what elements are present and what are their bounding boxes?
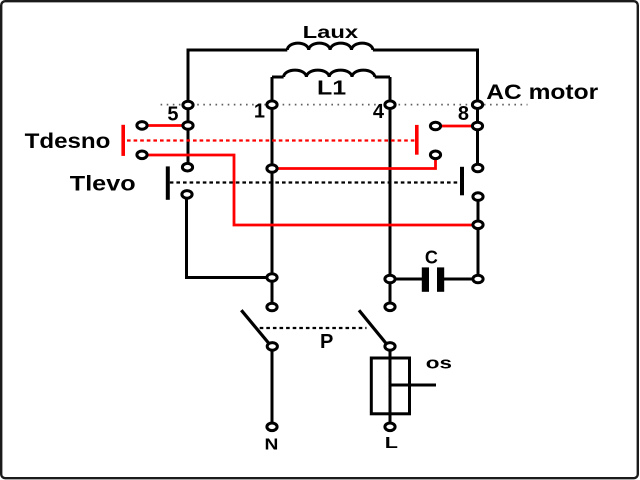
svg-text:L1: L1 bbox=[317, 77, 346, 99]
wire terminal-1 column bbox=[271, 77, 274, 307]
svg-text:Laux: Laux bbox=[303, 23, 359, 42]
svg-text:Tdesno: Tdesno bbox=[25, 129, 111, 152]
wire top-right vertical (top bus to node 8) bbox=[476, 50, 479, 105]
svg-text:Tlevo: Tlevo bbox=[70, 171, 136, 195]
switch P coupling dotted line bbox=[260, 327, 367, 329]
Tdesno left-bottom contact bbox=[137, 151, 147, 159]
junction node4 column/capacitor bbox=[385, 275, 395, 283]
junction right column/capacitor bbox=[473, 275, 483, 283]
junction node1/red wire bbox=[267, 165, 277, 173]
fuse os body bbox=[371, 358, 409, 414]
switch P left bottom contact bbox=[267, 343, 277, 351]
AC motor boundary dotted line bbox=[161, 104, 528, 106]
switch Tdesno left bar bbox=[121, 125, 125, 156]
wire right column (node 8 down to Tlevo right contact) bbox=[476, 105, 479, 168]
wire left column (node 5 down to Tlevo top contact) bbox=[187, 105, 190, 167]
svg-text:8: 8 bbox=[458, 103, 469, 125]
Tlevo left-top contact bbox=[182, 163, 192, 171]
svg-text:P: P bbox=[320, 331, 333, 353]
red wire Tdesno left-bottom to right column bbox=[142, 155, 478, 225]
capacitor C right plate bbox=[437, 267, 444, 291]
svg-text:1: 1 bbox=[254, 101, 265, 123]
svg-text:4: 4 bbox=[373, 101, 385, 123]
Tlevo right-bottom contact bbox=[473, 193, 483, 201]
wire L1 right stub bbox=[375, 76, 390, 79]
Tlevo right-top contact bbox=[473, 164, 483, 172]
wire terminal-4 column bbox=[389, 105, 392, 307]
Tlevo left-bottom contact bbox=[182, 191, 192, 199]
inductor L1 bbox=[284, 70, 375, 77]
svg-text:5: 5 bbox=[167, 103, 178, 125]
capacitor C left wire bbox=[390, 278, 422, 281]
wire left column below Tlevo bbox=[185, 194, 188, 277]
wire top bus left segment bbox=[187, 49, 288, 52]
junction left column/node1 column bbox=[267, 274, 277, 282]
svg-text:N: N bbox=[265, 435, 279, 453]
switch Tdesno coupling dotted line bbox=[127, 139, 415, 141]
node 4 terminal bbox=[385, 101, 395, 109]
Tdesno right-bottom contact bbox=[430, 151, 440, 159]
node 5 terminal bbox=[183, 101, 193, 109]
wire terminal-4 lower through fuse to L bbox=[389, 346, 392, 422]
Tdesno right-top contact bbox=[430, 122, 440, 130]
svg-text:AC motor: AC motor bbox=[486, 80, 598, 104]
switch P right top contact bbox=[385, 303, 395, 311]
wire top bus right segment bbox=[373, 49, 479, 52]
svg-text:C: C bbox=[425, 247, 438, 267]
switch Tlevo coupling dotted line bbox=[170, 181, 461, 183]
capacitor C left plate bbox=[422, 267, 429, 291]
switch Tlevo left bar bbox=[166, 166, 170, 199]
terminal L circle bbox=[385, 423, 395, 431]
red wire Tdesno right-top to node8 column bbox=[436, 125, 478, 128]
switch P right bottom contact bbox=[385, 343, 395, 351]
wire top-left vertical (node 5 to top bus) bbox=[187, 50, 190, 105]
switch Tdesno right bar bbox=[415, 125, 419, 155]
node 8 terminal bbox=[472, 101, 482, 109]
wire L1 right leg bbox=[389, 77, 392, 105]
switch P left blade bbox=[241, 310, 270, 345]
red wire Tdesno right-bottom to node1 column bbox=[272, 155, 436, 169]
wire terminal-1 column lower (P switch to N) bbox=[271, 346, 274, 427]
fuse os tap bbox=[390, 384, 436, 387]
junction right column/red wire bbox=[473, 221, 483, 229]
wire right column lower (Tlevo to capacitor) bbox=[477, 197, 480, 279]
switch P left top contact bbox=[267, 303, 277, 311]
inductor Laux bbox=[287, 43, 373, 50]
wire bottom-left horizontal to node 1 column bbox=[185, 276, 272, 279]
terminal N circle bbox=[267, 423, 277, 431]
node 1 terminal bbox=[267, 101, 277, 109]
svg-text:os: os bbox=[426, 354, 452, 373]
junction node8/red wire bbox=[472, 122, 482, 130]
junction node5/red wire bbox=[183, 122, 193, 130]
switch P right blade bbox=[359, 310, 387, 345]
wire L1 left stub bbox=[272, 76, 284, 79]
Tdesno left-top contact bbox=[137, 122, 147, 130]
red wire Tdesno left-top to node5 column bbox=[142, 124, 188, 127]
svg-text:L: L bbox=[385, 435, 399, 453]
switch Tlevo right bar bbox=[460, 167, 464, 196]
capacitor C right wire bbox=[444, 278, 478, 281]
